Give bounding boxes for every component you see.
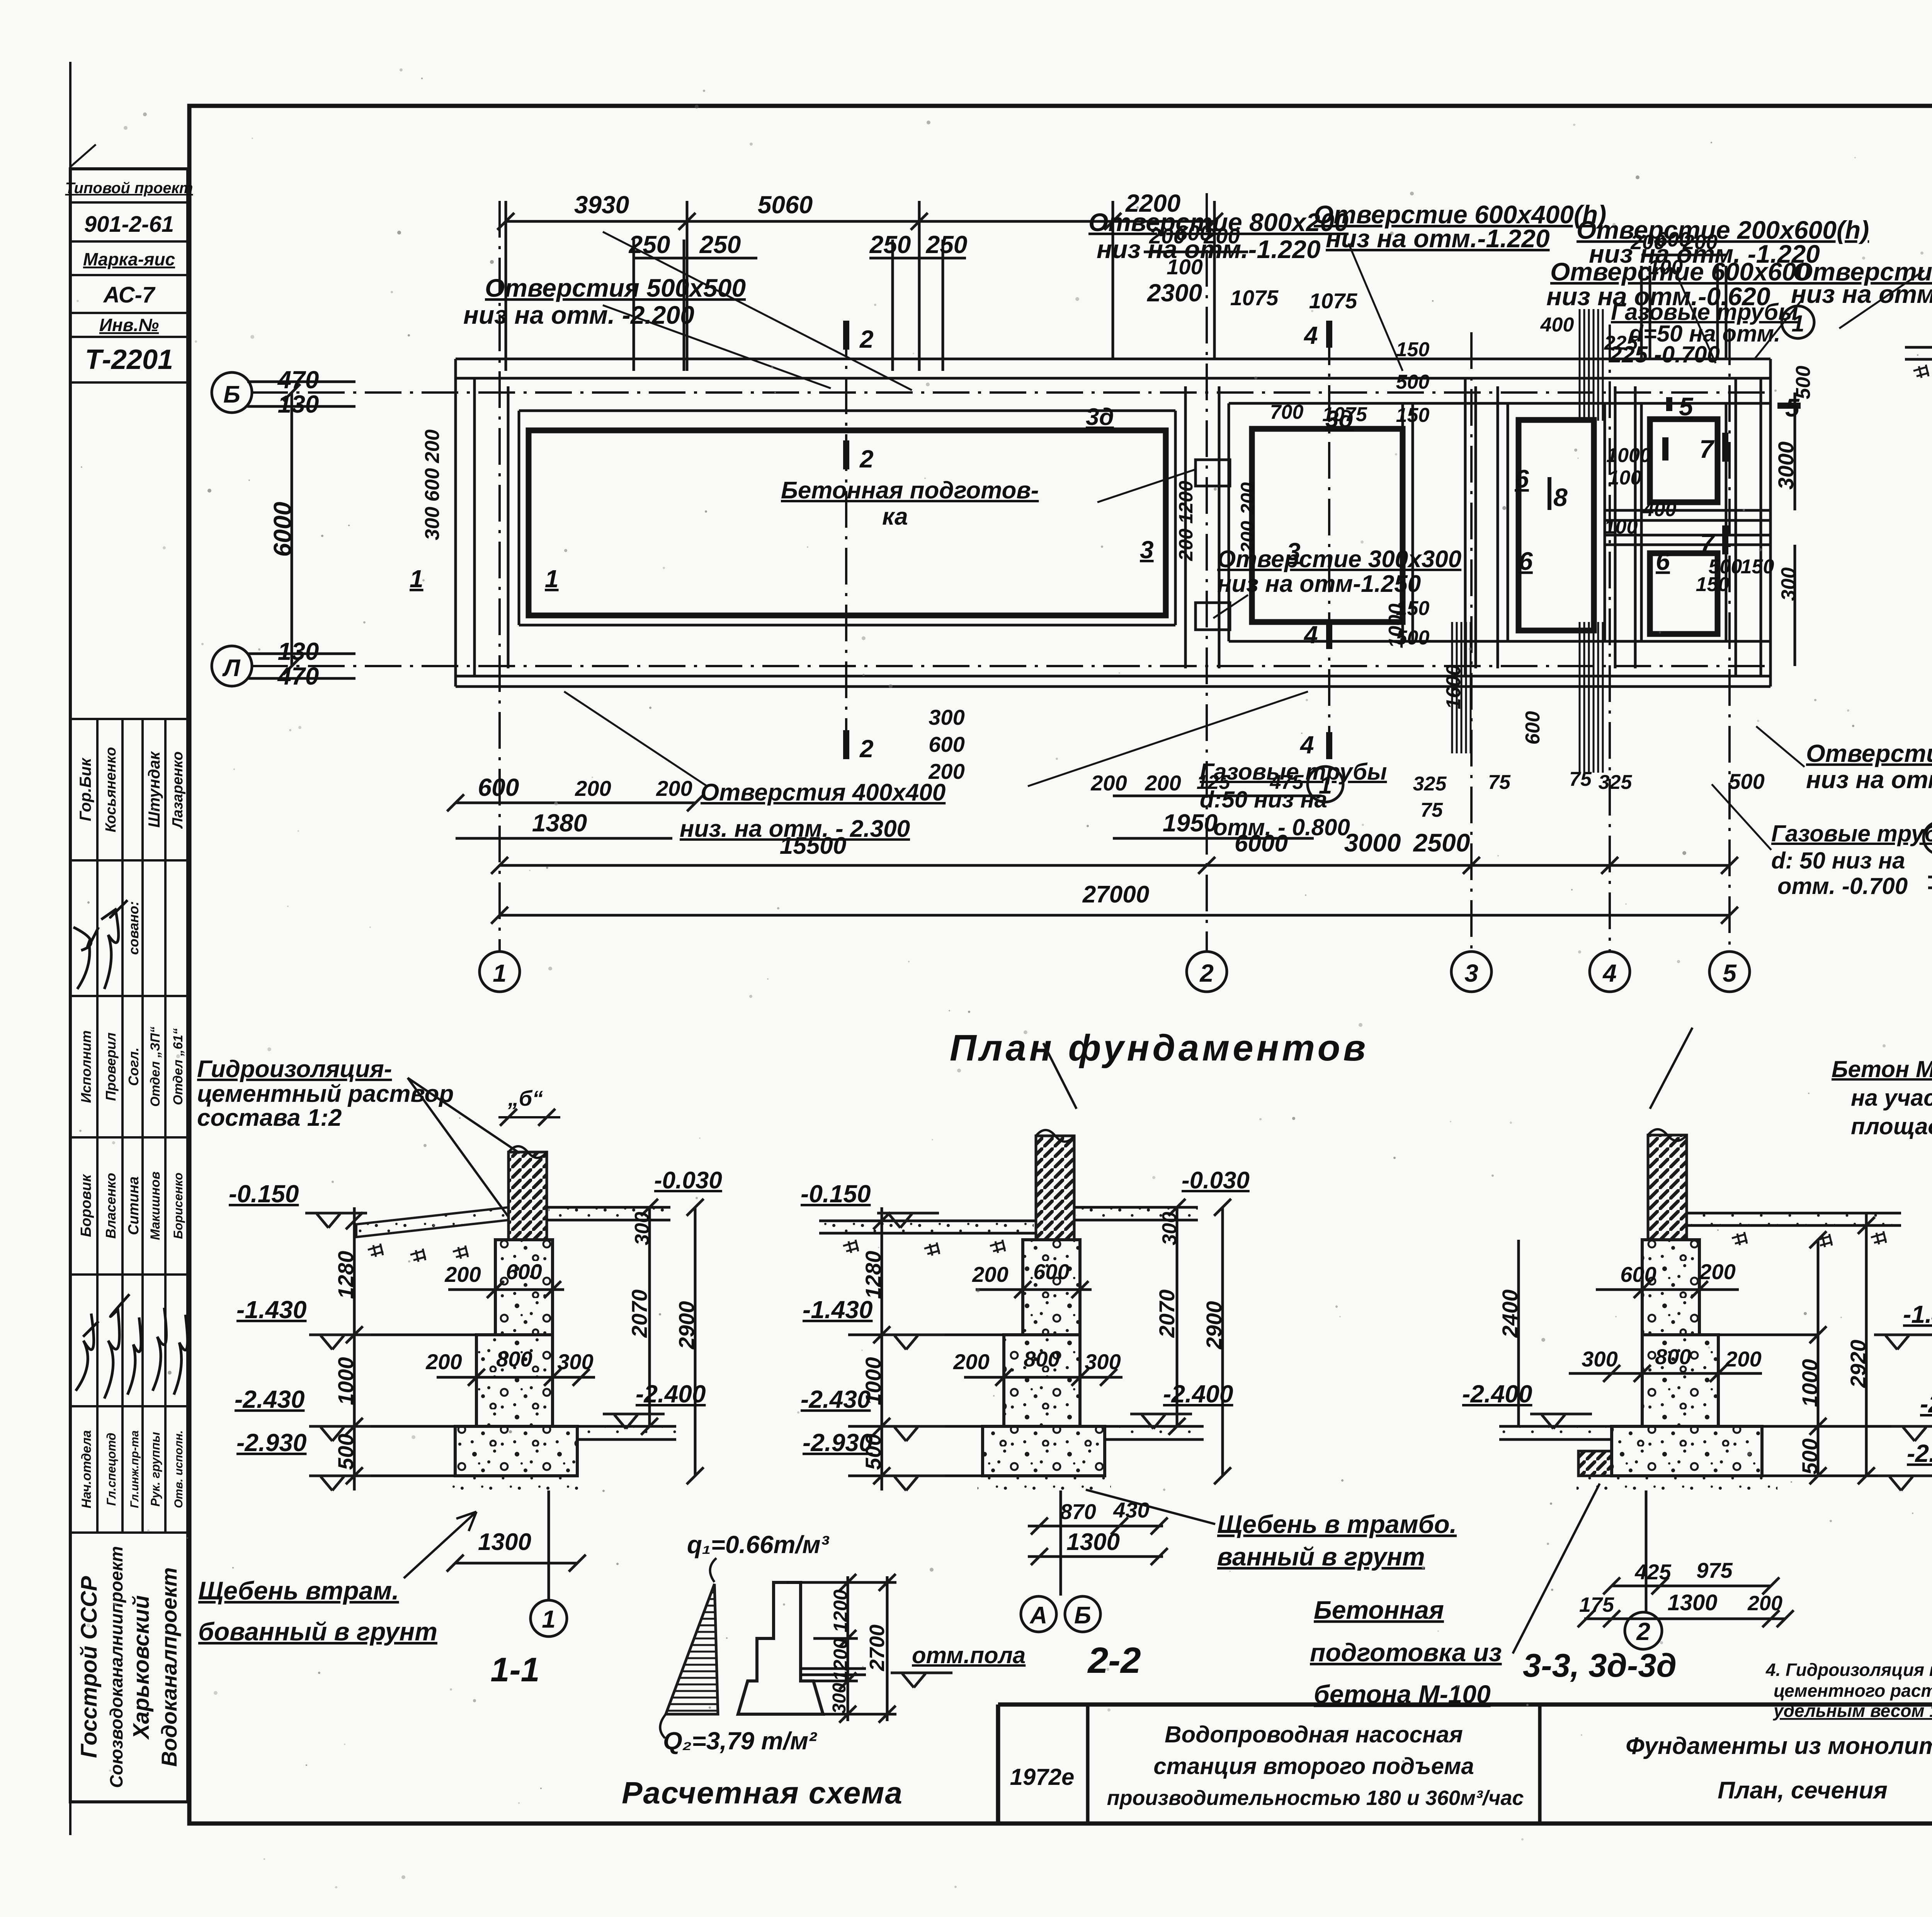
svg-text:Т-2201: Т-2201 xyxy=(85,344,173,375)
svg-text:600: 600 xyxy=(1620,1262,1656,1286)
svg-text:1: 1 xyxy=(410,565,423,593)
svg-text:470: 470 xyxy=(277,366,319,394)
svg-text:100: 100 xyxy=(1604,516,1638,538)
svg-text:1280: 1280 xyxy=(333,1251,358,1299)
svg-text:4. Гидроизоляция кирпичных с: 4. Гидроизоляция кирпичных стен выполняе… xyxy=(1765,1660,1932,1680)
svg-text:Отверстие 800x200: Отверстие 800x200 xyxy=(1088,208,1349,236)
svg-text:1300: 1300 xyxy=(1667,1590,1717,1615)
svg-text:Штундак: Штундак xyxy=(145,751,163,828)
svg-text:Щебень втрам.: Щебень втрам. xyxy=(198,1576,399,1605)
svg-text:Борисенко: Борисенко xyxy=(171,1173,185,1239)
svg-text:Водопроводная насосная: Водопроводная насосная xyxy=(1165,1722,1463,1747)
svg-text:производительностью 180 и 360м: производительностью 180 и 360м³/час xyxy=(1107,1786,1524,1810)
svg-text:цементный раствор: цементный раствор xyxy=(197,1081,454,1107)
svg-text:-2.400: -2.400 xyxy=(636,1380,706,1408)
svg-text:325: 325 xyxy=(1599,771,1633,794)
svg-text:цементного раствора состава 1:: цементного раствора состава 1:2 с добавл… xyxy=(1774,1681,1932,1701)
svg-text:75: 75 xyxy=(1569,768,1592,790)
svg-text:2300: 2300 xyxy=(1147,279,1202,307)
svg-text:100: 100 xyxy=(1608,467,1642,489)
svg-text:1950: 1950 xyxy=(1163,809,1218,837)
svg-text:300: 300 xyxy=(1777,568,1800,601)
svg-text:-0.150: -0.150 xyxy=(801,1180,871,1208)
svg-text:27000: 27000 xyxy=(1082,881,1149,908)
svg-text:500: 500 xyxy=(1728,769,1764,794)
svg-text:низ на отм. -0.910: низ на отм. -0.910 xyxy=(1806,766,1932,794)
svg-text:1075: 1075 xyxy=(1230,286,1279,310)
svg-text:1300: 1300 xyxy=(1066,1529,1120,1555)
svg-text:150: 150 xyxy=(1396,338,1430,361)
svg-text:4: 4 xyxy=(1303,321,1318,349)
svg-text:1000: 1000 xyxy=(1798,1359,1822,1407)
svg-text:Госстрой СССР: Госстрой СССР xyxy=(77,1576,102,1758)
svg-text:Л: Л xyxy=(222,655,241,681)
svg-text:200: 200 xyxy=(575,776,611,800)
svg-text:низ на отм.-0.910: низ на отм.-0.910 xyxy=(1791,280,1932,308)
svg-text:Газовые трубы: Газовые трубы xyxy=(1200,759,1387,785)
svg-text:600: 600 xyxy=(506,1259,542,1284)
svg-text:1000: 1000 xyxy=(861,1357,885,1405)
svg-text:1: 1 xyxy=(545,565,559,593)
svg-text:площадки: площадки xyxy=(1851,1113,1932,1139)
svg-text:отм. - 0.800: отм. - 0.800 xyxy=(1213,814,1350,840)
svg-text:Марка-яис: Марка-яис xyxy=(83,249,175,269)
svg-text:470: 470 xyxy=(277,662,319,690)
svg-text:300: 300 xyxy=(631,1212,653,1246)
svg-text:„б“: „б“ xyxy=(508,1086,543,1110)
svg-text:200: 200 xyxy=(656,776,692,800)
svg-text:225 -0.700: 225 -0.700 xyxy=(1609,342,1720,367)
svg-text:75: 75 xyxy=(1420,799,1443,821)
svg-text:станция второго подъема: станция второго подъема xyxy=(1153,1753,1474,1779)
svg-text:ванный в грунт: ванный в грунт xyxy=(1217,1542,1425,1571)
svg-text:250: 250 xyxy=(699,231,741,258)
svg-text:-0.030: -0.030 xyxy=(1182,1167,1250,1194)
svg-text:Бетонная подготов-: Бетонная подготов- xyxy=(781,477,1039,504)
svg-text:200: 200 xyxy=(1747,1592,1782,1615)
svg-text:1000: 1000 xyxy=(1606,444,1651,467)
svg-text:2070: 2070 xyxy=(1155,1290,1179,1338)
svg-text:300: 300 xyxy=(1085,1349,1121,1374)
svg-text:200: 200 xyxy=(1699,1259,1735,1284)
svg-text:1-1: 1-1 xyxy=(490,1650,539,1689)
svg-text:175: 175 xyxy=(1579,1593,1614,1616)
svg-text:-2.430: -2.430 xyxy=(1920,1390,1932,1418)
svg-text:200: 200 xyxy=(1725,1347,1761,1371)
svg-text:подготовка из: подготовка из xyxy=(1310,1638,1502,1667)
svg-text:800: 800 xyxy=(496,1347,532,1371)
svg-text:1280: 1280 xyxy=(861,1251,885,1299)
svg-text:3д: 3д xyxy=(1325,406,1354,433)
svg-text:425: 425 xyxy=(1634,1560,1671,1584)
svg-text:-1.430: -1.430 xyxy=(803,1296,872,1324)
svg-text:-2.400: -2.400 xyxy=(1462,1380,1532,1408)
svg-text:200: 200 xyxy=(425,1349,462,1374)
svg-text:низ. на отм. - 2.300: низ. на отм. - 2.300 xyxy=(680,816,910,842)
svg-text:Согл.: Согл. xyxy=(126,1047,141,1086)
svg-text:низ на отм.-1.220: низ на отм.-1.220 xyxy=(1326,224,1550,253)
svg-text:400: 400 xyxy=(1540,314,1574,336)
svg-text:Гидроизоляция-: Гидроизоляция- xyxy=(197,1056,392,1083)
svg-text:отм. -0.700: отм. -0.700 xyxy=(1777,873,1908,899)
svg-text:Щебень в трамбо.: Щебень в трамбо. xyxy=(1217,1510,1457,1538)
svg-text:1300: 1300 xyxy=(478,1529,531,1555)
svg-text:4: 4 xyxy=(1299,731,1314,759)
svg-text:700: 700 xyxy=(1270,401,1304,423)
svg-text:низ на отм-1.250: низ на отм-1.250 xyxy=(1217,571,1421,597)
svg-text:3-3, 3д-3д: 3-3, 3д-3д xyxy=(1523,1647,1677,1684)
svg-text:500: 500 xyxy=(333,1434,358,1470)
svg-text:75: 75 xyxy=(1488,771,1511,794)
svg-text:q₁=0.66т/м³: q₁=0.66т/м³ xyxy=(687,1531,830,1558)
svg-text:План, сечения: План, сечения xyxy=(1718,1777,1887,1804)
svg-text:2: 2 xyxy=(859,445,874,473)
svg-text:3д: 3д xyxy=(1086,404,1114,430)
svg-text:130: 130 xyxy=(278,637,319,665)
svg-text:200: 200 xyxy=(972,1262,1008,1286)
svg-text:150: 150 xyxy=(1396,404,1430,427)
svg-text:Отверстие 200x200: Отверстие 200x200 xyxy=(1806,739,1932,767)
svg-text:-0.030: -0.030 xyxy=(654,1167,722,1194)
svg-text:975: 975 xyxy=(1696,1558,1733,1582)
svg-text:250: 250 xyxy=(629,231,670,258)
svg-text:Исполнит: Исполнит xyxy=(78,1030,94,1103)
svg-text:300: 300 xyxy=(1158,1212,1181,1246)
svg-text:Гл.спецотд: Гл.спецотд xyxy=(104,1433,118,1506)
svg-text:1200: 1200 xyxy=(830,1589,851,1632)
svg-text:Проверил: Проверил xyxy=(103,1032,119,1101)
svg-text:удельным весом 1,40-1,42 в кол: удельным весом 1,40-1,42 в количестве 3,… xyxy=(1773,1701,1932,1721)
svg-text:Отдел „ЗП“: Отдел „ЗП“ xyxy=(148,1026,163,1106)
svg-text:1000: 1000 xyxy=(333,1357,358,1405)
svg-text:совано:: совано: xyxy=(126,901,141,955)
svg-text:2: 2 xyxy=(859,325,874,353)
svg-text:7: 7 xyxy=(1699,435,1715,463)
svg-text:200: 200 xyxy=(444,1262,481,1286)
svg-text:бованный в грунт: бованный в грунт xyxy=(198,1617,437,1646)
svg-text:Нач.отдела: Нач.отдела xyxy=(79,1430,94,1508)
svg-text:2-2: 2-2 xyxy=(1087,1640,1141,1681)
svg-text:-2.430: -2.430 xyxy=(801,1385,871,1413)
svg-text:6: 6 xyxy=(1515,464,1529,493)
svg-text:500: 500 xyxy=(861,1434,885,1470)
svg-text:Расчетная схема: Расчетная схема xyxy=(622,1776,903,1810)
svg-text:300: 300 xyxy=(421,507,444,540)
svg-text:Газовые трубы: Газовые трубы xyxy=(1771,821,1932,846)
svg-text:325: 325 xyxy=(1413,773,1447,795)
svg-text:6: 6 xyxy=(1519,547,1533,575)
svg-text:200: 200 xyxy=(953,1349,989,1374)
svg-text:низ на отм.-1.220: низ на отм.-1.220 xyxy=(1097,235,1321,263)
svg-text:Б: Б xyxy=(1074,1602,1091,1629)
svg-text:6000: 6000 xyxy=(269,502,296,557)
svg-text:1200: 1200 xyxy=(1175,481,1197,523)
svg-text:1: 1 xyxy=(1791,311,1804,336)
svg-text:состава 1:2: состава 1:2 xyxy=(197,1105,342,1131)
svg-text:2920: 2920 xyxy=(1846,1340,1870,1388)
svg-text:1: 1 xyxy=(493,959,507,987)
svg-text:Отверстия 500x500: Отверстия 500x500 xyxy=(485,274,746,302)
svg-text:-1.430: -1.430 xyxy=(1903,1300,1932,1328)
svg-text:Власенко: Власенко xyxy=(103,1173,119,1239)
svg-text:800: 800 xyxy=(1655,1344,1691,1369)
svg-text:300: 300 xyxy=(557,1349,593,1374)
svg-text:Косьяненко: Косьяненко xyxy=(103,747,119,833)
svg-text:ка: ка xyxy=(882,503,908,530)
svg-text:Бетонная: Бетонная xyxy=(1314,1596,1444,1624)
svg-text:5060: 5060 xyxy=(758,191,813,219)
svg-text:Рук. группы: Рук. группы xyxy=(148,1432,162,1506)
svg-text:600: 600 xyxy=(421,468,444,502)
svg-text:3: 3 xyxy=(1464,959,1478,987)
svg-text:600: 600 xyxy=(1033,1259,1069,1284)
svg-text:600: 600 xyxy=(478,773,519,801)
svg-text:3000: 3000 xyxy=(1344,828,1401,857)
svg-text:300: 300 xyxy=(929,705,964,729)
svg-text:1380: 1380 xyxy=(532,809,587,837)
svg-text:130: 130 xyxy=(278,390,319,418)
svg-text:Гл.инж.пр-та: Гл.инж.пр-та xyxy=(128,1430,141,1508)
svg-text:бетона М-100: бетона М-100 xyxy=(1314,1680,1491,1708)
svg-text:Водоканалпроект: Водоканалпроект xyxy=(157,1567,181,1767)
svg-text:2: 2 xyxy=(1199,959,1214,987)
svg-text:Отв. исполн.: Отв. исполн. xyxy=(172,1430,185,1508)
svg-text:Харьковский: Харьковский xyxy=(129,1595,154,1740)
svg-text:d: 50 низ на: d: 50 низ на xyxy=(1771,848,1905,874)
svg-text:1972е: 1972е xyxy=(1010,1764,1075,1790)
svg-text:1000: 1000 xyxy=(1385,603,1407,648)
svg-text:2: 2 xyxy=(859,735,874,763)
svg-text:300: 300 xyxy=(1582,1347,1617,1371)
svg-text:А: А xyxy=(1029,1602,1048,1629)
svg-text:2900: 2900 xyxy=(1202,1301,1226,1350)
svg-text:1: 1 xyxy=(542,1605,556,1633)
svg-text:Отверстия 400x400: Отверстия 400x400 xyxy=(701,779,946,806)
svg-text:4: 4 xyxy=(1303,621,1318,649)
svg-text:Отверстие 300x300: Отверстие 300x300 xyxy=(1217,546,1461,573)
svg-text:Макишнов: Макишнов xyxy=(148,1171,163,1240)
svg-text:250: 250 xyxy=(926,231,968,258)
svg-text:Б: Б xyxy=(223,381,240,408)
svg-text:150: 150 xyxy=(1741,556,1774,578)
svg-text:-2.430: -2.430 xyxy=(235,1385,304,1413)
svg-text:2: 2 xyxy=(1636,1618,1650,1645)
svg-text:Боровик: Боровик xyxy=(78,1174,94,1237)
svg-text:-0.150: -0.150 xyxy=(229,1180,299,1208)
svg-text:Типовой проект: Типовой проект xyxy=(65,180,193,197)
svg-text:-2.930: -2.930 xyxy=(1907,1439,1932,1467)
svg-text:-2.930: -2.930 xyxy=(236,1429,306,1456)
svg-text:АС-7: АС-7 xyxy=(103,282,156,308)
svg-text:на участке: на участке xyxy=(1851,1085,1932,1111)
svg-text:План фундаментов: План фундаментов xyxy=(950,1027,1369,1069)
svg-text:870: 870 xyxy=(1060,1499,1096,1524)
svg-text:2900: 2900 xyxy=(674,1301,699,1350)
svg-text:7: 7 xyxy=(1700,529,1716,557)
svg-text:1075: 1075 xyxy=(1309,289,1357,313)
svg-text:Союзводоканалниипроект: Союзводоканалниипроект xyxy=(106,1546,126,1788)
svg-text:Гор.Бик: Гор.Бик xyxy=(76,758,94,821)
svg-text:3930: 3930 xyxy=(574,191,629,219)
svg-text:800: 800 xyxy=(1024,1347,1060,1371)
svg-text:250: 250 xyxy=(869,231,911,258)
svg-text:3: 3 xyxy=(1287,538,1301,566)
svg-text:200: 200 xyxy=(1175,529,1197,561)
svg-text:600: 600 xyxy=(1522,711,1544,745)
svg-text:200: 200 xyxy=(421,430,444,464)
svg-text:6: 6 xyxy=(1656,547,1670,575)
svg-text:200: 200 xyxy=(1090,771,1127,795)
svg-text:8: 8 xyxy=(1553,483,1568,512)
svg-text:Инв.№: Инв.№ xyxy=(99,315,159,335)
svg-text:1600: 1600 xyxy=(1442,664,1465,709)
svg-text:Лазаренко: Лазаренко xyxy=(170,751,186,829)
svg-text:Бетон М-100: Бетон М-100 xyxy=(1832,1056,1932,1082)
svg-text:1200: 1200 xyxy=(830,1638,851,1681)
svg-text:2500: 2500 xyxy=(1413,828,1470,857)
svg-text:-2.400: -2.400 xyxy=(1163,1380,1233,1408)
svg-text:500: 500 xyxy=(1798,1438,1822,1474)
svg-text:Ситина: Ситина xyxy=(126,1176,142,1235)
svg-text:2400: 2400 xyxy=(1498,1290,1522,1338)
svg-text:500: 500 xyxy=(1396,371,1430,393)
svg-text:1: 1 xyxy=(1319,772,1332,799)
svg-text:низ на отм. -2.200: низ на отм. -2.200 xyxy=(463,301,694,329)
svg-text:200: 200 xyxy=(1237,482,1259,515)
svg-text:4: 4 xyxy=(1602,959,1617,987)
svg-text:5: 5 xyxy=(1679,392,1694,421)
svg-text:2070: 2070 xyxy=(627,1290,651,1338)
svg-text:901-2-61: 901-2-61 xyxy=(84,212,174,237)
svg-text:3: 3 xyxy=(1140,536,1154,564)
svg-text:5: 5 xyxy=(1785,393,1800,422)
svg-text:2700: 2700 xyxy=(866,1625,889,1671)
svg-text:200: 200 xyxy=(1145,771,1181,795)
svg-text:600: 600 xyxy=(929,732,964,756)
svg-text:150: 150 xyxy=(1696,573,1730,596)
svg-text:Отдел „61“: Отдел „61“ xyxy=(171,1028,185,1105)
svg-text:Q₂=3,79 т/м²: Q₂=3,79 т/м² xyxy=(663,1727,817,1755)
svg-text:400: 400 xyxy=(1643,498,1677,521)
svg-text:300: 300 xyxy=(829,1683,850,1714)
svg-text:5: 5 xyxy=(1723,959,1737,987)
svg-text:Фундаменты из монолитного б: Фундаменты из монолитного бетона. xyxy=(1626,1733,1932,1759)
svg-text:-1.430: -1.430 xyxy=(236,1296,306,1324)
svg-text:3000: 3000 xyxy=(1774,442,1798,490)
svg-text:отм.пола: отм.пола xyxy=(912,1642,1026,1668)
